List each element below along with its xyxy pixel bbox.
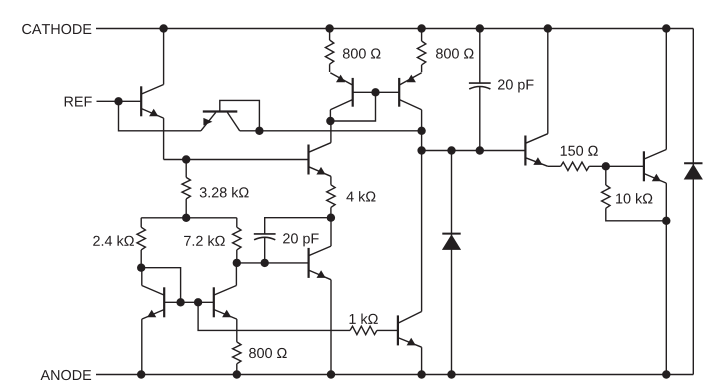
resistor R8 label xyxy=(350,314,378,324)
junction R2 on CATHODE rail xyxy=(417,24,425,32)
wire R4 bottom lead xyxy=(185,199,187,218)
wire Q7 emitter down to ANODE xyxy=(665,183,667,374)
wire comparator output row y=150.5 xyxy=(422,150,526,152)
wire Q10 collector down to node A xyxy=(329,110,331,121)
capacitor C1 20 pF xyxy=(254,234,276,240)
wire R6 bottom lead xyxy=(236,250,238,263)
wire Q1 emitter to bases row (y=159.5) xyxy=(164,159,309,161)
transistor Q7 (output NPN) xyxy=(644,150,666,184)
junction R4 bottom node xyxy=(182,214,190,222)
resistor R5 2.4 kohm xyxy=(137,227,145,250)
wire Q2 emitter down to ANODE xyxy=(141,319,143,374)
wire D1 vertical xyxy=(451,151,453,375)
resistor R6 7.2 kohm xyxy=(233,227,241,250)
junction Q8 collector row junction xyxy=(417,146,425,154)
junction D1 top node xyxy=(447,146,455,154)
wire Q5 collector up to R3 bottom xyxy=(330,218,332,246)
junction 1k takeoff node xyxy=(194,298,202,306)
wire Q8 emitter down to ANODE xyxy=(421,347,423,374)
resistor R3 label xyxy=(346,191,375,201)
wire ANODE rail xyxy=(96,374,693,376)
wire mirror base tie down to node A xyxy=(330,92,375,121)
wire R10 bottom to Q7 emitter xyxy=(606,208,667,221)
junction R6 bottom node xyxy=(233,259,241,267)
wire R2 to QP3 emitter xyxy=(421,65,423,72)
resistor R5 2.4 kohm lead top xyxy=(140,218,142,227)
resistor R3 4 kohm xyxy=(327,185,335,208)
wire Q2 base row xyxy=(164,301,214,303)
wire Q9 output to mirror node (y=130.8) xyxy=(240,130,422,132)
junction Q8 emitter on ANODE rail xyxy=(417,370,425,378)
wire comparator base row y=262.9 xyxy=(237,262,309,264)
wire Q2 collector-base tie xyxy=(141,268,180,303)
wire mirror bases xyxy=(353,91,400,93)
resistor R4 label xyxy=(200,187,249,198)
wire Q11 collector down to node B xyxy=(421,110,423,131)
transistor Q2 (bottom mirror left, faces left) xyxy=(142,286,164,320)
transistor Q9 (diode-connected lateral PNP) xyxy=(201,112,240,131)
resistor R2 label xyxy=(436,48,474,58)
resistor R2 800 ohm xyxy=(417,41,425,65)
junction 3.28k top node xyxy=(182,155,190,163)
junction Q7 emitter on ANODE rail xyxy=(662,370,670,378)
wire Q6 emitter to R9 xyxy=(548,165,561,167)
junction Q2 emitter on ANODE rail xyxy=(137,370,145,378)
wire C2 bottom lead xyxy=(479,87,481,151)
junction C1 bottom node xyxy=(261,259,269,267)
resistor R1 800 ohm xyxy=(325,40,333,64)
junction R7 on ANODE rail xyxy=(233,370,241,378)
capacitor C2 20 pF xyxy=(469,83,491,89)
resistor R6 label xyxy=(184,235,225,245)
junction R5 bottom node xyxy=(137,264,145,272)
resistor R9 label xyxy=(561,146,598,156)
resistor R7 800 ohm xyxy=(233,342,241,364)
resistor R9 150 ohm xyxy=(561,162,589,170)
wire R1 to QP2 emitter xyxy=(329,64,331,72)
resistor R2 800 ohm lead top xyxy=(421,29,423,42)
junction Q9 collector-base node xyxy=(255,127,263,135)
node CATHODE label xyxy=(22,24,91,34)
wire right edge vertical (cathode-anode) xyxy=(692,29,694,375)
wire CATHODE rail xyxy=(96,28,693,30)
wire R8 to Q8 base xyxy=(377,329,398,331)
transistor Q10 (mirror PNP left) xyxy=(330,73,352,110)
junction node A (mirror left collector) xyxy=(326,117,334,125)
transistor Q5 (NPN, base at divider) xyxy=(309,246,331,280)
junction R1 on CATHODE rail xyxy=(325,24,333,32)
resistor R10 label xyxy=(616,193,652,204)
capacitor C2 label xyxy=(498,79,534,92)
wire 1k feed down and right xyxy=(198,302,350,330)
capacitor C1 label xyxy=(283,233,319,246)
wire divider top row xyxy=(141,217,237,219)
wire C1 bottom lead xyxy=(264,238,266,263)
resistor R4 3.28 kohm lead top xyxy=(185,160,187,178)
wire Q5 emitter down to ANODE xyxy=(330,280,332,375)
transistor Q4 (gain NPN) xyxy=(309,143,331,177)
resistor R5 label xyxy=(93,235,134,245)
wire R5 bottom lead xyxy=(140,250,142,268)
resistor R4 3.28 kohm xyxy=(182,177,190,198)
transistor Q11 (mirror PNP right) xyxy=(399,73,421,110)
wire Q2 collector up xyxy=(141,268,143,286)
wire Q4 collector up to node A xyxy=(330,121,332,143)
wire Q9 base tie to collector xyxy=(220,100,260,130)
junction Q2 base tie node xyxy=(176,298,184,306)
wire R3 bottom lead xyxy=(330,207,332,217)
junction C2 bottom node xyxy=(476,146,484,154)
resistor R1 label xyxy=(343,48,381,58)
junction node B (mirror right collector) xyxy=(417,127,425,135)
resistor R10 10 kohm xyxy=(602,185,610,208)
transistor Q8 (output driver NPN) xyxy=(398,312,422,348)
resistor R7 label xyxy=(249,348,287,358)
junction Q5 emitter on ANODE rail xyxy=(327,370,335,378)
wire R7 bottom lead xyxy=(236,364,238,375)
transistor Q3 (bottom mirror right) xyxy=(214,286,237,320)
junction R10 on Q7 emitter xyxy=(662,217,670,225)
wire Q6 collector to CATHODE xyxy=(547,29,549,134)
node REF label xyxy=(65,97,92,107)
wire Q3 collector up to R6 bottom xyxy=(235,263,237,286)
junction Q6 collector on CATHODE rail xyxy=(544,24,552,32)
junction R3 bottom node xyxy=(327,214,335,222)
wire Q7 collector to CATHODE xyxy=(665,29,667,150)
junction D1 on ANODE rail xyxy=(447,370,455,378)
resistor R8 1 kohm xyxy=(350,326,377,334)
wire R9 to Q7 base xyxy=(589,165,644,167)
junction REF node xyxy=(114,97,122,105)
diode D1 xyxy=(442,234,461,250)
wire REF lead xyxy=(97,100,142,102)
resistor R10 10 kohm lead top xyxy=(605,166,607,185)
junction mirror base tie xyxy=(371,88,379,96)
junction Q1 collector on CATHODE rail xyxy=(159,24,167,32)
transistor Q6 (driver NPN) xyxy=(525,134,547,167)
diode D2 (substrate, anode to ANODE cathode to CATHODE) xyxy=(684,163,703,179)
wire Q4 emitter to R3 xyxy=(330,176,332,185)
resistor R1 800 ohm lead top xyxy=(329,29,331,41)
wire C1 top connection xyxy=(265,218,331,234)
node ANODE label xyxy=(41,370,92,380)
resistor R6 7.2 kohm lead top xyxy=(236,218,238,227)
wire Q3 emitter to R7 xyxy=(236,319,238,342)
transistor Q1 (input NPN, base=REF) xyxy=(141,85,163,119)
wire C2 top lead xyxy=(479,29,481,84)
wire Q1 emitter down xyxy=(163,118,165,159)
junction R9-R10 node xyxy=(602,162,610,170)
wire Q8 collector up to node B xyxy=(421,131,423,312)
wire Q1 collector to CATHODE xyxy=(163,29,165,85)
junction C2 on CATHODE rail xyxy=(476,24,484,32)
wire REF node down to input stage xyxy=(119,101,201,131)
junction Q7 collector on CATHODE rail xyxy=(662,24,670,32)
